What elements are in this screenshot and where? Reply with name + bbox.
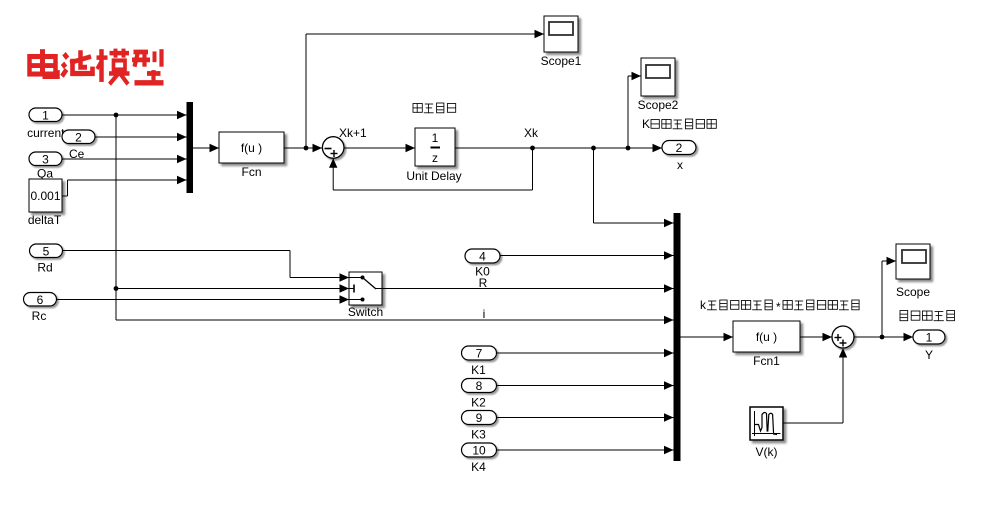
svg-text:Qa: Qa: [37, 167, 53, 181]
inport 8 "K2": [462, 379, 497, 410]
sum block S2 (plus plus): [832, 326, 854, 348]
inport 1 "current": [27, 108, 65, 140]
function block Fcn f(u): [219, 132, 284, 179]
wire feedback Xk down-left-up into sum S1: [329, 148, 533, 190]
inport 6 "Rc": [24, 293, 57, 324]
sum block S1 (minus plus): [322, 137, 349, 162]
svg-text:K4: K4: [471, 460, 486, 474]
svg-text:i: i: [483, 307, 486, 321]
svg-text:Xk: Xk: [524, 126, 539, 140]
label 系统测量值 (system measured value): [900, 311, 955, 321]
svg-text:2: 2: [75, 131, 82, 145]
svg-text:z: z: [432, 151, 438, 165]
svg-text:f(u ): f(u ): [756, 330, 777, 344]
wire mux M2 to Fcn1: [681, 333, 734, 341]
scope block Scope: [896, 244, 930, 299]
outport 1 "Y": [913, 330, 945, 362]
svg-text:*: *: [776, 300, 781, 314]
unit delay block 1/z: [406, 128, 461, 183]
svg-text:Fcn: Fcn: [241, 165, 261, 179]
label Xk: [524, 126, 539, 140]
svg-text:5: 5: [43, 245, 50, 259]
wire inport 7 to mux M2: [497, 349, 674, 357]
svg-text:Xk+1: Xk+1: [339, 126, 367, 140]
wire sum S1 to Unit Delay: [344, 144, 415, 152]
svg-text:k: k: [700, 298, 707, 312]
svg-text:0.001: 0.001: [30, 189, 60, 203]
wire branch up to Scope1: [306, 30, 544, 148]
inport 9 "K3": [462, 411, 497, 442]
constant block deltaT value 0.001: [28, 179, 62, 227]
wire Xk branch up to Scope2: [628, 72, 641, 148]
inport 3 "Qa": [29, 152, 62, 181]
wire sum S2 to outport Y: [854, 333, 913, 341]
inport 4 "K0": [465, 249, 500, 279]
inport 10 "K4": [462, 443, 497, 474]
svg-text:f(u ): f(u ): [241, 141, 262, 155]
svg-text:K2: K2: [471, 396, 486, 410]
svg-text:V(k): V(k): [756, 445, 778, 459]
wire Xk branch down to mux M2 input 1: [594, 148, 674, 227]
svg-text:K: K: [642, 117, 650, 131]
svg-text:Rc: Rc: [32, 309, 47, 323]
svg-text:1: 1: [42, 109, 49, 123]
scope block Scope2: [638, 58, 679, 112]
wire inport 9 to mux M2: [497, 413, 674, 421]
inport 5 "Rd": [30, 244, 63, 275]
svg-text:Switch: Switch: [348, 305, 383, 319]
svg-text:Rd: Rd: [37, 261, 52, 275]
inport 2 "Ce": [62, 130, 95, 161]
label Xk+1: [339, 126, 367, 140]
wire i line to mux M2 input 4: [116, 316, 674, 324]
wire Unit Delay output Xk to outport x: [455, 144, 662, 152]
svg-text:Unit Delay: Unit Delay: [406, 169, 461, 183]
svg-text:K1: K1: [471, 363, 486, 377]
svg-text:x: x: [677, 158, 683, 172]
mux M2 (8 inputs): [674, 213, 681, 461]
label R: [479, 276, 488, 290]
svg-text:10: 10: [472, 444, 486, 458]
svg-text:Scope1: Scope1: [541, 54, 582, 68]
title text 电池模型 (battery model): [30, 49, 164, 85]
wire branch up to Scope: [882, 257, 896, 337]
svg-text:Fcn1: Fcn1: [753, 354, 780, 368]
svg-text:3: 3: [42, 153, 49, 167]
svg-text:1: 1: [926, 331, 933, 345]
svg-text:Scope: Scope: [896, 285, 930, 299]
wire inport1 to mux M1: [62, 111, 187, 119]
label K时刻系统状态 (state of system at time K): [642, 117, 716, 131]
wire inport 10 to mux M2: [497, 446, 674, 454]
svg-text:9: 9: [476, 411, 483, 425]
wire constant deltaT to mux M1: [62, 176, 187, 196]
label 单位延迟 (unit delay) above block: [413, 103, 456, 113]
label k时刻系统状态*测量系统的参数: [700, 298, 859, 314]
svg-text:K0: K0: [475, 265, 490, 279]
wire inport6 Rc to switch input 3: [57, 295, 350, 303]
signal source block V(k): [750, 407, 783, 459]
svg-text:deltaT: deltaT: [28, 213, 62, 227]
svg-text:K3: K3: [471, 428, 486, 442]
inport 7 "K1": [462, 346, 497, 377]
svg-text:6: 6: [37, 293, 44, 307]
svg-text:Scope2: Scope2: [638, 98, 679, 112]
label i: [483, 307, 486, 321]
wire inport5 Rd to switch input 1: [63, 251, 350, 282]
wire inport3 to mux M1: [62, 155, 187, 163]
wire mux M1 to Fcn: [193, 144, 219, 152]
mux M1 (4 inputs): [187, 102, 194, 193]
wire switch output R to mux M2 input 3: [382, 284, 674, 292]
scope block Scope1: [541, 16, 582, 68]
wire inport 8 to mux M2: [497, 381, 674, 389]
svg-text:4: 4: [479, 250, 486, 264]
wire V(k) to sum S2 bottom: [783, 348, 847, 423]
svg-text:7: 7: [476, 347, 483, 361]
wire Fcn to sum S1: [284, 144, 322, 152]
wire Fcn1 to sum S2: [800, 333, 832, 341]
svg-text:8: 8: [476, 379, 483, 393]
svg-text:current: current: [27, 126, 65, 140]
svg-text:Y: Y: [925, 348, 933, 362]
wire current branch vertical down to switch control and i line: [114, 115, 349, 320]
wire inport4 K0 to mux M2 input 2: [500, 251, 674, 259]
outport 2 "x": [662, 141, 696, 173]
wire inport2 to mux M1: [95, 133, 187, 141]
function block Fcn1 f(u): [733, 321, 800, 368]
svg-text:1: 1: [432, 131, 439, 145]
svg-text:2: 2: [676, 141, 683, 155]
switch block Switch: [348, 272, 383, 319]
node branch on current line: [114, 113, 119, 118]
